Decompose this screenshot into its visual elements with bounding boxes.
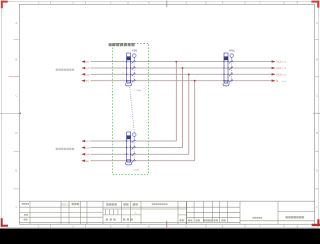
pins and contacts of KM3 xyxy=(126,139,136,162)
wire L3 vertical drop xyxy=(188,74,190,154)
label: reference KM2 xyxy=(229,50,236,53)
output arrow KL2 xyxy=(272,67,276,70)
svg-text:A: A xyxy=(16,21,18,25)
junction L2 tap xyxy=(182,67,184,69)
feeder arrow L3 group1 xyxy=(81,73,85,76)
svg-text:D: D xyxy=(316,131,318,135)
svg-text:(1x4): (1x4) xyxy=(282,74,287,76)
feeder arrow L1 group2 xyxy=(81,140,85,143)
wire N top horizontal xyxy=(85,80,272,82)
svg-text:B: B xyxy=(16,58,18,62)
feeder arrow L3 group2 xyxy=(81,153,85,156)
label: reference KM1 xyxy=(131,50,138,53)
enclosure: damper control dashed box xyxy=(112,44,148,175)
feeder arrow L2 group1 xyxy=(81,67,85,70)
svg-text:(1x4): (1x4) xyxy=(282,81,287,83)
svg-text:3: 3 xyxy=(123,66,124,68)
svg-text:5: 5 xyxy=(123,73,124,75)
svg-text:7: 7 xyxy=(123,79,124,81)
wire L3 bottom horizontal xyxy=(85,153,189,155)
feeder arrow N group1 xyxy=(81,79,85,82)
label: wire L2 tag group2 xyxy=(86,146,91,149)
wire N vertical drop xyxy=(194,81,196,161)
label: 第一组电源输入 xyxy=(56,69,75,71)
label: cable spec under KM3 xyxy=(132,169,139,171)
contactor KM3 xyxy=(126,132,137,165)
wire L1 vertical drop xyxy=(175,62,177,141)
svg-text:1: 1 xyxy=(123,60,124,62)
label: cable spec under KM1 xyxy=(134,90,141,92)
label: wire L1 tag group2 xyxy=(86,140,91,143)
svg-text:-KM1: -KM1 xyxy=(131,50,138,53)
label: wire L3 tag group1 xyxy=(86,73,91,76)
junction L1 tap xyxy=(175,61,177,63)
mechanical link KM1-KM3 dotted diagonal xyxy=(129,87,134,132)
label: wire N tag group1 xyxy=(86,79,91,82)
svg-text:-KM2: -KM2 xyxy=(229,50,236,53)
svg-text:(1x4): (1x4) xyxy=(282,62,287,64)
wire L3 top horizontal xyxy=(85,73,272,75)
title block xyxy=(19,201,314,224)
wire L2 top horizontal xyxy=(85,67,272,69)
label: wire L2 tag group1 xyxy=(86,67,91,70)
wire L1 bottom horizontal xyxy=(85,140,176,142)
pins and contacts of KM1 xyxy=(126,60,136,83)
label: cable KL2 spec xyxy=(276,67,286,70)
pin numbers KM1 xyxy=(123,60,124,81)
contactor KM1 xyxy=(126,53,137,86)
svg-text:1 (1x6): 1 (1x6) xyxy=(132,169,139,171)
feeder arrow N group2 xyxy=(81,160,85,163)
svg-text:1 (1x6): 1 (1x6) xyxy=(134,90,141,92)
wire L2 bottom horizontal xyxy=(85,147,183,149)
svg-text:D: D xyxy=(15,131,17,135)
wire L1 top horizontal xyxy=(85,61,272,63)
label: box title 混风阀启停控制 xyxy=(109,43,135,46)
label: wire L3 tag group2 xyxy=(86,153,91,156)
output arrow KL3 xyxy=(272,73,276,76)
label: 第二组电源输入 xyxy=(56,148,75,150)
svg-text:E: E xyxy=(316,168,318,172)
output arrow N xyxy=(272,79,276,82)
svg-text:C: C xyxy=(316,94,318,98)
svg-text:(1x4): (1x4) xyxy=(282,68,287,70)
feeder arrow L1 group1 xyxy=(81,60,85,63)
svg-text:2021.11: 2021.11 xyxy=(61,203,70,206)
label: wire N tag group2 xyxy=(86,159,91,162)
junction N tap xyxy=(194,80,196,82)
svg-text:B: B xyxy=(316,58,318,62)
svg-text:E: E xyxy=(16,168,18,172)
wire L2 vertical drop xyxy=(182,68,184,148)
wire N bottom horizontal xyxy=(85,160,195,162)
output arrow KL1 xyxy=(272,60,276,63)
label: wire L1 tag group1 xyxy=(86,60,91,63)
pins and contacts of KM2 xyxy=(223,60,233,83)
svg-text:A: A xyxy=(316,21,318,25)
svg-text:N: N xyxy=(276,80,278,83)
contactor KM2 xyxy=(223,53,234,86)
svg-text:C: C xyxy=(15,94,17,98)
label: cable KL1 spec xyxy=(276,61,286,64)
junction L3 tap xyxy=(188,73,190,75)
feeder arrow L2 group2 xyxy=(81,146,85,149)
label: cable N spec xyxy=(276,80,286,83)
label: cable KL3 spec xyxy=(276,73,286,76)
